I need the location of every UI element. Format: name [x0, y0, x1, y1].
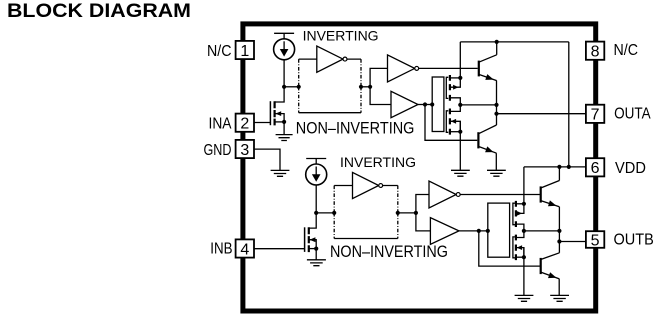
svg-text:INVERTING: INVERTING	[340, 154, 416, 170]
svg-text:NON–INVERTING: NON–INVERTING	[296, 119, 415, 138]
svg-text:BLOCK DIAGRAM: BLOCK DIAGRAM	[7, 1, 191, 22]
svg-text:2: 2	[240, 116, 249, 133]
svg-text:3: 3	[240, 142, 249, 159]
svg-text:6: 6	[591, 160, 600, 177]
svg-text:VDD: VDD	[615, 160, 646, 177]
svg-text:7: 7	[591, 107, 600, 124]
svg-text:OUTA: OUTA	[614, 105, 651, 122]
svg-text:1: 1	[240, 43, 249, 60]
svg-text:5: 5	[591, 232, 600, 249]
svg-text:4: 4	[240, 241, 249, 258]
svg-text:NON–INVERTING: NON–INVERTING	[330, 242, 448, 261]
svg-text:N/C: N/C	[207, 43, 232, 60]
svg-text:OUTB: OUTB	[614, 232, 654, 249]
svg-text:8: 8	[591, 44, 600, 61]
svg-text:INA: INA	[209, 115, 232, 132]
svg-text:GND: GND	[204, 142, 232, 159]
svg-text:INB: INB	[210, 240, 232, 257]
svg-text:N/C: N/C	[614, 42, 639, 59]
svg-text:INVERTING: INVERTING	[303, 28, 379, 44]
